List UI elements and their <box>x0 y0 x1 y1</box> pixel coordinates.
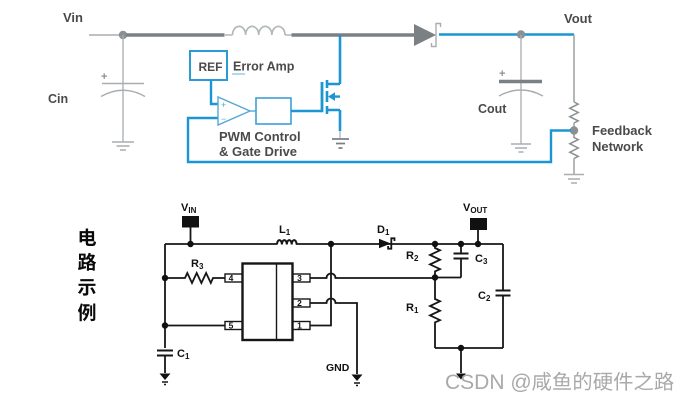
svg-text:C2: C2 <box>478 290 491 303</box>
svg-text:3: 3 <box>297 273 302 283</box>
svg-text:+: + <box>101 71 107 83</box>
svg-text:Error Amp: Error Amp <box>233 60 295 74</box>
svg-text:& Gate Drive: & Gate Drive <box>219 144 297 159</box>
svg-text:Cin: Cin <box>48 92 68 106</box>
svg-text:R2: R2 <box>406 250 419 263</box>
svg-text:R3: R3 <box>191 258 204 271</box>
svg-text:C3: C3 <box>475 253 488 266</box>
svg-text:L1: L1 <box>279 224 291 237</box>
svg-text:−: − <box>221 114 226 124</box>
svg-text:Feedback: Feedback <box>592 123 653 138</box>
svg-text:Network: Network <box>592 139 644 154</box>
svg-text:REF: REF <box>199 60 223 74</box>
svg-text:Vout: Vout <box>564 11 593 26</box>
svg-text:CSDN @: CSDN @ <box>445 371 532 394</box>
svg-text:GND: GND <box>326 362 350 374</box>
svg-text:+: + <box>221 100 226 110</box>
svg-text:C1: C1 <box>177 348 190 361</box>
svg-text:D1: D1 <box>377 224 390 237</box>
svg-text:VIN: VIN <box>181 202 197 215</box>
svg-text:R1: R1 <box>406 302 419 315</box>
svg-text:5: 5 <box>229 321 234 331</box>
svg-text:4: 4 <box>229 273 234 283</box>
svg-text:Vin: Vin <box>63 10 83 25</box>
svg-text:VOUT: VOUT <box>463 202 487 215</box>
svg-text:Cout: Cout <box>478 102 507 116</box>
svg-text:1: 1 <box>297 321 302 331</box>
svg-text:2: 2 <box>297 298 302 308</box>
svg-text:+: + <box>499 68 505 80</box>
svg-text:PWM Control: PWM Control <box>219 129 301 144</box>
